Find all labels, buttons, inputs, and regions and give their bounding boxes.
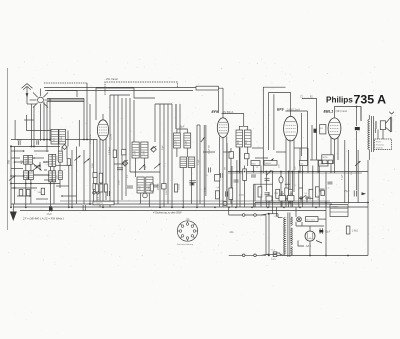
power transformer sec2 xyxy=(291,228,292,245)
resistor Rb2 xyxy=(38,188,45,195)
svg-text:0,1/30mA: 0,1/30mA xyxy=(89,134,92,144)
capacitor Cv2b xyxy=(226,191,228,196)
svg-text:1000: 1000 xyxy=(166,189,168,195)
row verticals lower xyxy=(232,180,326,207)
mains plug 220V xyxy=(271,250,283,261)
wire label underline V2 xyxy=(222,113,244,126)
svg-text:0,1: 0,1 xyxy=(294,185,297,187)
IF transformer IFT1 coil a xyxy=(174,133,181,148)
psu top row boxes xyxy=(266,194,294,202)
coil L4a xyxy=(49,171,52,182)
svg-text:2M: 2M xyxy=(225,167,227,170)
annotation bottom-left xyxy=(22,217,64,221)
AZ1 wires xyxy=(296,207,326,256)
label rot 01uF xyxy=(209,145,211,154)
wire antenna bus y83 xyxy=(44,83,87,96)
IF transformer IFT1 coil b xyxy=(184,133,191,148)
label left rot xyxy=(7,159,10,164)
bus main y204 xyxy=(11,203,332,205)
capacitor C 25uF with arrow xyxy=(343,190,366,197)
tube V4 pins xyxy=(331,138,338,174)
coil L6a xyxy=(51,129,58,144)
component f2 xyxy=(245,154,250,159)
svg-text:47μF: 47μF xyxy=(47,213,53,216)
svg-text:1500: 1500 xyxy=(143,150,145,156)
wire mid verticals xyxy=(197,125,231,207)
dial lamp xyxy=(30,89,52,112)
speaker voice coil xyxy=(375,121,376,133)
coil L3b xyxy=(52,154,55,166)
svg-text:2000 Ω: 2000 Ω xyxy=(376,147,383,149)
label stub right xyxy=(274,216,279,218)
capacitor Cd1 xyxy=(117,168,123,170)
scatter labels rot xyxy=(92,144,353,200)
power transformer sec3 xyxy=(291,247,292,255)
trimmer L6 xyxy=(62,145,67,150)
capacitor C 50uF psu xyxy=(319,228,331,234)
switch arrow Sb2 xyxy=(84,159,90,164)
svg-text:5000: 5000 xyxy=(252,163,256,165)
osc coil T2b xyxy=(146,177,153,193)
resistor Rg1 xyxy=(321,190,325,195)
label L5 xyxy=(56,155,58,179)
label rot mid-left xyxy=(89,134,92,144)
wire x301 x312 xyxy=(302,113,313,160)
svg-text:0,5: 0,5 xyxy=(305,193,308,195)
IFT1 lower wires xyxy=(183,168,191,208)
power transformer sec1 xyxy=(291,217,292,225)
pot arrow row xyxy=(266,170,271,175)
svg-text:EF9: EF9 xyxy=(277,108,283,112)
svg-text:EF9: EF9 xyxy=(212,110,218,114)
switch arrow Sb1 xyxy=(75,156,81,161)
coil L2b xyxy=(29,171,34,180)
capacitor Ca2 xyxy=(37,140,39,145)
IFT1 wires xyxy=(176,104,187,157)
trimmer CT2 xyxy=(151,146,157,152)
IFT1 lower coil a xyxy=(180,157,187,168)
svg-text:906: 906 xyxy=(7,159,10,164)
wire y184 xyxy=(254,183,291,185)
capacitor Ce1 xyxy=(189,181,196,183)
row labels xyxy=(239,185,307,197)
wire mid-left verticals xyxy=(90,104,97,205)
IF transformer IFT2 coil b xyxy=(244,130,251,147)
wire corner x274 xyxy=(273,94,275,150)
resistor Ra1 xyxy=(196,86,219,90)
svg-text:+.μF: +.μF xyxy=(216,187,221,189)
wire osc top xyxy=(96,88,172,120)
speaker cone xyxy=(386,112,394,132)
capacitor C 47uF xyxy=(47,206,53,216)
svg-text:291. Kanal: 291. Kanal xyxy=(106,78,118,81)
svg-text:1500: 1500 xyxy=(135,150,137,156)
wire v3 feed xyxy=(262,115,264,173)
trimmer CT1 xyxy=(122,160,128,166)
svg-text:50pF: 50pF xyxy=(162,144,164,150)
component small c2 xyxy=(93,184,97,190)
coil L5a xyxy=(58,151,62,162)
wire y139.5 left xyxy=(11,122,97,140)
wire left mid horizontals xyxy=(11,147,72,189)
svg-text:2000: 2000 xyxy=(92,162,94,168)
top label boxes row xyxy=(251,161,328,167)
wire EBL1 top xyxy=(302,99,317,161)
label EF9 V3 xyxy=(277,108,300,112)
box drahtm xyxy=(93,201,114,205)
svg-text:Freischw.: Freischw. xyxy=(376,144,385,146)
output transformer TR2 primary xyxy=(368,115,370,160)
rectifier AZ1 xyxy=(305,231,315,241)
IFT2 wires xyxy=(239,126,247,173)
title 735 A xyxy=(354,92,387,106)
svg-text:735 A: 735 A xyxy=(354,92,387,106)
wire left border xyxy=(11,145,15,207)
psu switch dots xyxy=(300,195,308,199)
volume pot arrow xyxy=(201,137,205,142)
wire EBL1 anode xyxy=(335,107,362,122)
resistor row lower xyxy=(229,187,319,200)
psu right vertical xyxy=(325,203,327,256)
svg-text:25pF: 25pF xyxy=(145,164,147,170)
tube V2 EF9 xyxy=(217,117,228,137)
switch stub top xyxy=(229,207,269,216)
svg-text:4 Sicherung zu den 55W: 4 Sicherung zu den 55W xyxy=(153,211,182,215)
osc coil T1a xyxy=(132,142,139,158)
ground xyxy=(10,204,17,221)
label L1 xyxy=(22,158,29,164)
row verticals upper xyxy=(232,148,326,207)
resistor Rc1 xyxy=(99,173,102,183)
svg-text:50/50: 50/50 xyxy=(323,157,329,159)
svg-text:20000: 20000 xyxy=(158,183,160,190)
tube V2 pins xyxy=(220,137,227,208)
capacitor Cg1 xyxy=(326,182,333,189)
mains wires xyxy=(266,213,283,257)
row junction dots xyxy=(236,171,320,173)
svg-text:27 = DB 440 ( A 22 = FM Wels ): 27 = DB 440 ( A 22 = FM Wels ) xyxy=(22,217,64,221)
svg-text:2000: 2000 xyxy=(61,135,63,141)
coil L5b xyxy=(58,171,62,180)
wire psu feeds xyxy=(255,203,277,217)
svg-text:100: 100 xyxy=(300,163,303,165)
wire x356 x344 xyxy=(345,107,357,204)
label C1 B1 ticks xyxy=(300,96,313,99)
switch contacts bottom-left xyxy=(93,192,99,195)
box B1 xyxy=(320,125,326,134)
annotation sicherung xyxy=(153,211,182,215)
output transformer core xyxy=(372,116,374,152)
coil L2a xyxy=(24,171,29,180)
capacitor Ch2 xyxy=(83,205,85,211)
coil L1b xyxy=(28,156,32,165)
wire x358 xyxy=(357,150,359,203)
coil L4b xyxy=(52,171,55,182)
page margin line xyxy=(6,68,8,230)
speaker driver xyxy=(380,121,385,130)
left junction dots extra xyxy=(10,150,63,197)
wire corner x268 xyxy=(269,93,291,151)
oval component xyxy=(279,177,283,183)
capacitor row items xyxy=(234,175,325,195)
component f1 xyxy=(229,152,234,159)
svg-text:0,1μF: 0,1μF xyxy=(342,174,344,180)
left block interconnects xyxy=(11,151,77,199)
resistor bottom row left xyxy=(95,184,107,192)
svg-text:1.9kΩ: 1.9kΩ xyxy=(352,230,359,233)
tube V4 EBL1 xyxy=(328,118,341,139)
label L3 xyxy=(47,160,49,165)
svg-text:AZ 1: AZ 1 xyxy=(305,245,312,248)
label EF9 V2 xyxy=(212,110,234,114)
title Philips xyxy=(326,96,353,105)
speaker label box xyxy=(375,139,392,150)
tube V1 AK2 xyxy=(97,114,108,140)
pot arrow right xyxy=(355,161,361,166)
box right mid xyxy=(322,155,334,164)
svg-text:25000: 25000 xyxy=(239,195,245,197)
left small boxes extra xyxy=(19,190,30,196)
power transformer primary xyxy=(284,217,286,255)
power transformer core xyxy=(288,213,290,258)
label IFT1 xyxy=(175,140,187,145)
label rot V1 xyxy=(109,146,112,155)
coil L6b xyxy=(59,129,66,144)
component small c1 xyxy=(93,173,97,178)
svg-text:(MF) band: (MF) band xyxy=(336,110,348,113)
label +uF xyxy=(216,187,221,189)
psu row wires xyxy=(269,191,307,207)
dashed box 291 Kanal xyxy=(105,82,177,95)
terminal box gramo xyxy=(330,205,348,217)
osc coil T1b xyxy=(141,142,148,158)
label L6 xyxy=(53,135,63,141)
wire y90.5 left xyxy=(47,91,77,98)
junction dot mid xyxy=(191,183,193,185)
label 30pF xyxy=(179,126,185,129)
resistor Re2 xyxy=(215,175,220,182)
wire corner x263 xyxy=(263,87,285,115)
label L2 xyxy=(27,174,29,179)
svg-text:5000: 5000 xyxy=(318,194,320,200)
tube V3 xyxy=(284,93,298,141)
bus psu bottom xyxy=(273,255,368,257)
switch stub bottom xyxy=(229,254,269,257)
svg-text:220V: 220V xyxy=(271,259,277,261)
indicator box B2 xyxy=(306,217,319,222)
svg-text:5000: 5000 xyxy=(119,179,121,185)
wire right lower verticals xyxy=(357,107,369,256)
wire left columns xyxy=(26,147,84,208)
label rot osc2 xyxy=(111,133,160,190)
label 291 Kanal xyxy=(106,78,118,81)
band switch S1a xyxy=(32,164,42,172)
wire y146 xyxy=(11,141,60,152)
fuse lamp xyxy=(297,217,302,222)
component osc small box xyxy=(122,149,126,155)
svg-text:1MΩ: 1MΩ xyxy=(274,193,279,195)
small rects right mid xyxy=(323,160,333,164)
wire run y87.4 xyxy=(44,86,196,88)
coil L3a xyxy=(49,154,52,166)
svg-text:0,5M: 0,5M xyxy=(205,187,207,192)
potentiometer P1 xyxy=(9,176,16,181)
IFT1 lower coil b xyxy=(188,157,195,168)
wire speaker links xyxy=(357,130,384,161)
svg-text:0,1μF 5M: 0,1μF 5M xyxy=(209,145,211,154)
wire lamp bundle xyxy=(47,96,87,122)
tube V3 pins xyxy=(286,139,294,208)
svg-text:Philips: Philips xyxy=(326,96,353,105)
resistor Rb1 xyxy=(67,159,70,166)
coil L1a xyxy=(24,156,28,165)
pot arrow osc2 xyxy=(139,165,145,171)
terminal circle mid xyxy=(143,193,148,198)
wire run y90.6 xyxy=(45,91,218,113)
antenna xyxy=(22,84,37,104)
label T1 xyxy=(135,150,146,156)
bus psu y202.5 xyxy=(255,202,368,204)
capacitor Cd2 xyxy=(127,186,133,188)
wire long verticals A xyxy=(176,104,180,133)
svg-text:24A: 24A xyxy=(230,231,235,234)
svg-text:EBL1: EBL1 xyxy=(324,109,334,113)
svg-text:B2 C1-D1: B2 C1-D1 xyxy=(306,219,316,221)
label 24A xyxy=(230,231,235,234)
svg-text:50342: 50342 xyxy=(179,183,181,190)
label o1 xyxy=(187,218,191,221)
label AZ1 xyxy=(305,245,312,248)
bus y171.5 xyxy=(228,172,368,174)
label IFT2 xyxy=(238,139,248,144)
bus light y201 xyxy=(60,200,330,202)
resistor Re1 xyxy=(216,191,220,199)
capacitor blob x314 xyxy=(314,129,317,133)
capacitor Cc1 xyxy=(107,191,109,196)
resistor R 1.9k xyxy=(346,226,358,234)
svg-text:3000: 3000 xyxy=(56,155,58,161)
svg-text:C1 ← → B1: C1 ← → B1 xyxy=(300,96,313,99)
wire to V2 top cap xyxy=(219,88,224,117)
capacitor Ce2 xyxy=(205,168,211,178)
wire y120 segment xyxy=(24,120,79,147)
svg-text:1500: 1500 xyxy=(26,158,28,164)
wire v3 stubs xyxy=(203,148,326,207)
resistor tall R244 xyxy=(243,169,247,181)
label T2 xyxy=(140,185,151,191)
wire label underline V3 xyxy=(285,111,307,161)
IF transformer IFT2 coil a xyxy=(236,130,243,147)
socket circle xyxy=(177,221,197,241)
resistor Rd1 xyxy=(113,150,116,158)
pot arrow v3 xyxy=(268,159,274,164)
socket label xyxy=(177,243,194,246)
switch arrow osc xyxy=(154,164,161,169)
svg-text:Sockelschaltung: Sockelschaltung xyxy=(177,243,194,246)
wire lamp verticals xyxy=(32,98,51,152)
junction dots left xyxy=(10,106,369,257)
capacitor Ca1 xyxy=(17,140,22,145)
osc coil T2a xyxy=(137,177,144,193)
svg-text:DRAHTM.: DRAHTM. xyxy=(95,202,105,205)
bus main y210.6 xyxy=(20,210,326,212)
svg-text:3000: 3000 xyxy=(140,185,142,191)
terminal circle xyxy=(223,201,227,205)
socket pins xyxy=(178,221,198,241)
svg-text:0,1μF: 0,1μF xyxy=(198,159,200,165)
tube V1 pins xyxy=(100,139,106,207)
wire y130.5 xyxy=(15,115,68,147)
svg-text:50342: 50342 xyxy=(111,133,113,140)
oscillator verticals xyxy=(110,95,172,207)
svg-text:25μF: 25μF xyxy=(343,190,350,193)
capacitor dark blob xyxy=(355,127,360,130)
capacitor Cv2a xyxy=(221,173,223,178)
bus main y207 xyxy=(13,206,368,208)
label EBL1 xyxy=(324,109,348,113)
component cluster mid xyxy=(150,183,194,192)
wire osc joins xyxy=(114,158,160,207)
svg-text:100000: 100000 xyxy=(265,163,271,165)
svg-text:25000: 25000 xyxy=(261,193,263,200)
